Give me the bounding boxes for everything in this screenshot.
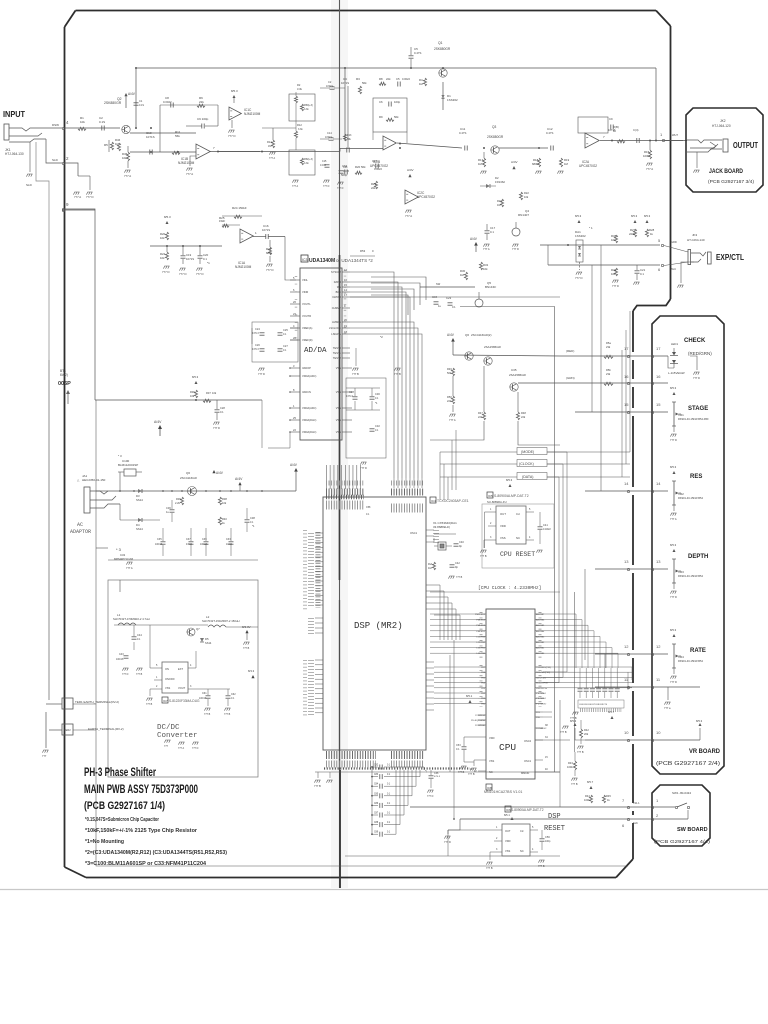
resistor R5 with bracket — [108, 140, 110, 152]
pin 9 stub — [62, 208, 64, 210]
DSP left pin column — [316, 532, 321, 608]
supply arrows reg — [212, 470, 215, 473]
svg-text:R12: R12 — [297, 123, 302, 127]
svg-text:100p: 100p — [394, 100, 401, 104]
svg-text:VADOP: VADOP — [302, 366, 311, 370]
svg-text:R50(+3): R50(+3) — [304, 104, 313, 107]
AD/DA IC body — [300, 268, 342, 440]
svg-text:* 1: * 1 — [589, 226, 593, 230]
svg-text:CHSMT: CHSMT — [332, 306, 342, 310]
svg-text:DSW: DSW — [52, 123, 59, 127]
svg-text:Cd: Cd — [520, 829, 524, 833]
feedback rail left drop — [135, 68, 137, 128]
svg-text:HTJ-064-130: HTJ-064-130 — [5, 152, 24, 156]
svg-text:XMOD/P3x: XMOD/P3x — [536, 688, 548, 690]
svg-text:777 D: 777 D — [360, 466, 367, 470]
cap C56 — [540, 838, 545, 840]
CPU left incoming wires P8 bus — [434, 666, 478, 668]
reset grounds — [484, 540, 488, 548]
svg-text:777 A: 777 A — [124, 174, 131, 178]
capacitor C2 — [101, 126, 103, 131]
outside-border wire down from jack — [36, 142, 49, 700]
svg-text:10: 10 — [624, 730, 629, 735]
svg-text:OUT: OUT — [500, 512, 506, 516]
svg-text:R52(+3): R52(+3) — [304, 158, 313, 161]
resistor R46b — [614, 268, 617, 276]
IC3 AD/DA header — [301, 255, 308, 262]
page bottom edge line — [0, 889, 768, 891]
resistor R39 — [180, 497, 183, 505]
power section enclosure box — [108, 580, 258, 777]
svg-text:VOUT: VOUT — [178, 686, 186, 690]
svg-text:C58: C58 — [366, 506, 371, 509]
svg-text:0.47S: 0.47S — [414, 51, 421, 55]
svg-text:777 D: 777 D — [512, 247, 519, 251]
svg-text:RN1407: RN1407 — [518, 213, 529, 217]
svg-text:V11.1: V11.1 — [633, 801, 640, 805]
CPU left pins upper — [478, 613, 486, 615]
CPU right P21 P20 — [535, 711, 543, 713]
resistor R42 — [579, 729, 582, 738]
divider wires — [262, 127, 296, 129]
border gaps at connector pins — [632, 352, 635, 360]
svg-text:C28: C28 — [220, 406, 225, 410]
DSP bottom gnd left — [329, 772, 331, 778]
svg-text:C40: C40 — [459, 540, 464, 544]
svg-text:23k: 23k — [606, 345, 611, 349]
wire pin2 row — [460, 818, 688, 820]
svg-text:777 B: 777 B — [560, 731, 567, 734]
DSP top pin cluster left — [326, 495, 364, 500]
svg-text:POWRG2: POWRG2 — [475, 715, 486, 717]
caps row gnd — [578, 697, 624, 699]
capacitor C40 — [454, 543, 459, 545]
terminal right wires — [73, 703, 96, 705]
svg-text:2SC4116GR(2): 2SC4116GR(2) — [471, 333, 491, 337]
resistor R48 — [516, 412, 519, 420]
svg-text:NJM2100M: NJM2100M — [235, 265, 252, 269]
svg-text:100k: 100k — [584, 798, 590, 802]
AD/DA VSS pins right — [342, 367, 352, 369]
svg-text:CHECK: CHECK — [684, 338, 706, 344]
svg-text:777: 777 — [164, 745, 169, 748]
resistor R49 — [451, 368, 454, 376]
svg-text:R5a: R5a — [606, 341, 611, 345]
svg-text:SLD: SLD — [52, 158, 59, 162]
svg-text:0.015: 0.015 — [320, 164, 327, 167]
svg-text:10k: 10k — [611, 272, 616, 276]
svg-text:MN101HCA27BS V1.01: MN101HCA27BS V1.01 — [484, 790, 522, 794]
rail drop to pin7 row — [559, 772, 561, 807]
DSP left pins CA bus — [315, 532, 323, 534]
svg-text:CPU: CPU — [499, 742, 516, 753]
DSP bottom pin cluster1 ticks — [326, 751, 376, 759]
L2 coil symbol — [208, 625, 226, 627]
svg-text:C35: C35 — [157, 538, 162, 541]
svg-text:*2: *2 — [380, 335, 383, 339]
divider network boxes left of fold — [289, 94, 315, 121]
svg-text:777 D: 777 D — [266, 268, 273, 272]
svg-text:777 D: 777 D — [162, 270, 169, 274]
IC4 label — [430, 497, 436, 503]
svg-text:L-115VEGW: L-115VEGW — [668, 371, 685, 375]
svg-text:R44: R44 — [585, 794, 590, 798]
svg-text:(RED/GRN): (RED/GRN) — [688, 351, 712, 356]
resistor R8 — [379, 82, 386, 85]
svg-text:R53: R53 — [360, 249, 366, 253]
svg-text:C32: C32 — [375, 424, 380, 428]
svg-text:VSS: VSS — [165, 686, 170, 690]
svg-text:1071S: 1071S — [326, 85, 333, 88]
main supply wire — [120, 490, 296, 492]
svg-text:1M: 1M — [268, 145, 271, 148]
resistor R26 — [268, 247, 271, 255]
svg-text:777 B: 777 B — [458, 771, 465, 774]
svg-text:RK901-40-15FW-B54: RK901-40-15FW-B54 — [678, 574, 703, 578]
resistor R15 to gnd — [648, 150, 651, 159]
wire Q3 to C12 — [499, 147, 548, 149]
svg-text:777 D: 777 D — [670, 595, 677, 599]
svg-text:EXP/CTL: EXP/CTL — [716, 253, 744, 262]
VR1 gnd — [673, 426, 675, 432]
svg-text:SW1 JM-0434: SW1 JM-0434 — [672, 791, 691, 795]
resistor R28 — [645, 229, 648, 237]
svg-text:HEC2350-01-150: HEC2350-01-150 — [82, 478, 106, 482]
transistor Q2 — [122, 125, 130, 133]
svg-text:10k: 10k — [524, 195, 529, 199]
R20 pwr arrow — [166, 221, 169, 224]
svg-text:DSP: DSP — [548, 813, 561, 821]
CPU pin numbers left column — [480, 612, 483, 658]
svg-text:47/6.3: 47/6.3 — [346, 395, 353, 398]
svg-text:SLD: SLD — [26, 183, 33, 187]
svg-text:BCK: BCK — [336, 290, 342, 294]
svg-text:777 D: 777 D — [693, 376, 700, 380]
svg-text:UDA1340M: UDA1340M — [309, 258, 335, 264]
svg-text:LCDPB1: LCDPB1 — [476, 648, 485, 650]
svg-text:P'2/TMOO: P'2/TMOO — [536, 703, 547, 705]
svg-text:IC7: IC7 — [163, 699, 168, 703]
IC7 pins — [154, 667, 162, 669]
svg-text:C2: C2 — [328, 80, 332, 84]
VR3 pot — [673, 559, 675, 583]
wire pin10 — [585, 739, 700, 741]
svg-text:1M: 1M — [115, 142, 120, 146]
dsp reset out drop — [448, 830, 460, 856]
op-amp IC2A — [585, 133, 599, 148]
svg-text:100/16: 100/16 — [199, 697, 207, 700]
svg-text:TEST2: TEST2 — [333, 356, 342, 360]
svg-text:C14: C14 — [327, 131, 332, 135]
caps row C64-C70 — [578, 688, 583, 690]
DSP IC body — [323, 497, 426, 750]
svg-text:22k: 22k — [199, 100, 204, 104]
capacitor C34 — [434, 301, 439, 303]
svg-text:P'3/TMAO: P'3/TMAO — [536, 697, 546, 700]
svg-text:777 D: 777 D — [196, 272, 203, 276]
CPU RESET IC body — [496, 506, 526, 544]
fold shadow band — [331, 0, 348, 888]
power arrow dcdc — [245, 630, 248, 633]
svg-text:14: 14 — [656, 481, 661, 486]
svg-text:IC5: IC5 — [488, 494, 493, 498]
CPU right pins upper AN — [535, 613, 543, 615]
ground IC1B — [190, 156, 196, 166]
svg-text:8/5.7: 8/5.7 — [608, 710, 615, 714]
DSP RESET IC body — [502, 824, 530, 856]
svg-text:10k: 10k — [122, 156, 127, 160]
svg-text:C61: C61 — [202, 692, 207, 695]
IC2C pwr arrow — [408, 174, 411, 177]
svg-text:22k: 22k — [447, 399, 452, 403]
resistor R38 — [614, 235, 617, 243]
svg-text:777 D: 777 D — [427, 795, 434, 798]
svg-text:VR2: VR2 — [678, 492, 684, 496]
DSP top pin ticks cluster1 — [326, 489, 364, 496]
resistor R25 — [222, 224, 229, 227]
DSP top pin labels cluster1 — [326, 481, 364, 486]
wire exp row1 — [584, 244, 660, 246]
IC5 header — [487, 492, 493, 498]
svg-text:VSS: VSS — [489, 759, 494, 763]
svg-text:R23: R23 — [497, 199, 502, 203]
svg-text:8/5.3: 8/5.3 — [670, 386, 677, 390]
svg-text:1071S: 1071S — [146, 135, 155, 139]
svg-text:VR4: VR4 — [678, 655, 684, 659]
resistor R1 — [78, 127, 86, 130]
pin12 vertical feed — [604, 654, 606, 668]
resistor R20 — [165, 232, 168, 240]
svg-text:C15: C15 — [322, 160, 327, 163]
wire power to DCDC box — [119, 580, 121, 592]
svg-text:OUTPUT: OUTPUT — [733, 141, 758, 150]
resistor R30 — [464, 272, 467, 280]
svg-text:RATE: RATE — [690, 648, 706, 654]
svg-text:R49: R49 — [447, 367, 452, 371]
svg-text:8/5.3: 8/5.3 — [670, 543, 677, 547]
op-amp IC1A — [240, 229, 253, 243]
transistor Q7 — [484, 357, 492, 365]
wire buses from AD/DA right pins down — [350, 272, 394, 478]
capacitor C19 — [181, 255, 186, 257]
svg-text:Rv1: Rv1 — [428, 562, 433, 566]
AD/DA pin number marks — [295, 276, 298, 344]
svg-text:SLF7032T-151MR07-2 150uH: SLF7032T-151MR07-2 150uH — [202, 619, 239, 623]
svg-text:47/6.3: 47/6.3 — [252, 348, 259, 351]
svg-text:MAIN PWB ASSY 75D373P000: MAIN PWB ASSY 75D373P000 — [84, 784, 198, 796]
capacitor C12 — [550, 146, 552, 151]
wire jack sleeve to ground — [46, 139, 62, 163]
capacitor C5b — [397, 82, 399, 87]
svg-text:C9 100p: C9 100p — [197, 117, 209, 121]
svg-text:TXD/SBO(P45): TXD/SBO(P45) — [536, 667, 551, 669]
svg-text:R22: R22 — [524, 191, 529, 195]
svg-text:OSC1: OSC1 — [410, 531, 418, 535]
svg-text:C85: C85 — [374, 793, 379, 795]
svg-text:8/5.1: 8/5.1 — [466, 694, 473, 698]
svg-text:777 D: 777 D — [444, 840, 451, 844]
svg-text:PMLED4: PMLED4 — [476, 620, 486, 622]
DSP bottom wire row — [326, 771, 560, 773]
svg-text:GRD: GRD — [671, 240, 677, 244]
svg-text:C64C65C66C67C68C69C70: C64C65C66C67C68C69C70 — [579, 704, 608, 706]
svg-text:A/4V: A/4V — [447, 333, 455, 337]
svg-text:500p: 500p — [341, 173, 348, 177]
wire pin7 row — [410, 806, 675, 808]
svg-text:EXT: EXT — [178, 667, 183, 671]
svg-text:C37: C37 — [186, 538, 191, 541]
svg-text:777 B: 777 B — [571, 783, 578, 786]
svg-text:777 B: 777 B — [394, 372, 401, 376]
svg-text:JK2: JK2 — [720, 119, 726, 123]
svg-text:2SK880GR: 2SK880GR — [487, 135, 504, 139]
svg-text:14: 14 — [624, 481, 629, 486]
svg-text:LSDATA: LSDATA — [331, 332, 341, 336]
diode D1 — [442, 82, 444, 110]
svg-text:NC: NC — [520, 849, 524, 853]
svg-text:(PCB G2927167 2/4): (PCB G2927167 2/4) — [656, 761, 720, 767]
svg-text:1M: 1M — [478, 162, 483, 166]
svg-text:DATAI: DATAI — [334, 280, 342, 284]
svg-text:A/4V: A/4V — [128, 92, 136, 96]
svg-text:SLK: SLK — [633, 821, 638, 825]
svg-text:JK3: JK3 — [692, 233, 698, 237]
crystal X1 symbol — [438, 542, 446, 550]
op-amp IC2C — [405, 190, 418, 204]
svg-text:C38: C38 — [250, 516, 255, 520]
svg-text:HTJ-064-140: HTJ-064-140 — [687, 238, 705, 242]
svg-text:777 B: 777 B — [577, 751, 584, 754]
transistor Q3 — [491, 146, 499, 154]
svg-text:0.1: 0.1 — [640, 272, 644, 276]
svg-text:2SC4116GR: 2SC4116GR — [180, 476, 198, 480]
svg-text:15: 15 — [656, 402, 661, 407]
svg-text:47/16: 47/16 — [186, 543, 193, 546]
svg-text:R37: R37 — [206, 391, 211, 395]
svg-text:DSP (MR2): DSP (MR2) — [354, 621, 403, 631]
svg-text:VDDA(ADC): VDDA(ADC) — [302, 406, 317, 410]
resistor R14 — [271, 140, 274, 148]
svg-text:A/4V: A/4V — [470, 237, 478, 241]
svg-text:S-81220F33MA-DUG: S-81220F33MA-DUG — [169, 699, 200, 703]
svg-text:680k: 680k — [266, 251, 273, 255]
terminal wires — [49, 703, 62, 705]
svg-text:15: 15 — [624, 402, 629, 407]
svg-text:0.0022: 0.0022 — [374, 167, 382, 171]
svg-text:777 A: 777 A — [178, 747, 185, 750]
svg-text:8/5.1: 8/5.1 — [504, 813, 510, 817]
svg-text:777 A: 777 A — [292, 185, 299, 188]
svg-text:JACK BOARD: JACK BOARD — [709, 169, 744, 175]
svg-text:LSCLOCK: LSCLOCK — [329, 326, 341, 330]
terminal TER1 — [62, 698, 73, 709]
svg-text:*3=C100:BLM11A601SP or C33:NFM: *3=C100:BLM11A601SP or C33:NFM41P11C204 — [85, 861, 207, 867]
svg-text:10k: 10k — [80, 120, 85, 124]
svg-text:R36: R36 — [190, 390, 195, 394]
svg-text:8/5.3: 8/5.3 — [506, 478, 513, 482]
svg-text:777 D: 777 D — [258, 372, 265, 376]
dsp reset pwr — [511, 817, 514, 820]
svg-text:8/5.3: 8/5.3 — [670, 628, 677, 632]
svg-text:or UDA1344TS *2: or UDA1344TS *2 — [336, 258, 373, 263]
capacitor C2b — [330, 86, 335, 88]
svg-text:POWRGK: POWRGK — [475, 725, 486, 727]
P21 P20 wires — [543, 711, 552, 713]
battery arrow symbol — [66, 390, 70, 394]
transistor Q1 — [439, 69, 447, 77]
svg-text:C86: C86 — [374, 803, 379, 805]
svg-text:WS: WS — [337, 285, 341, 289]
svg-text:SLF7032T-470M4R2-2 4.7uH: SLF7032T-470M4R2-2 4.7uH — [113, 617, 150, 621]
wire exp row2 — [548, 264, 660, 266]
svg-text:0.1S: 0.1S — [139, 104, 144, 107]
svg-text:16: 16 — [656, 374, 661, 379]
svg-text:777 A: 777 A — [405, 214, 412, 218]
resistor R18 — [537, 158, 540, 167]
svg-text:C42: C42 — [455, 561, 460, 565]
svg-text:MPM4P71C2M: MPM4P71C2M — [114, 557, 134, 561]
feedback box around C6 R9 (IC2B) — [373, 98, 407, 132]
svg-text:1M: 1M — [564, 162, 569, 166]
diode D4 — [138, 518, 142, 522]
svg-text:S-80900ALMP-DAT-T2: S-80900ALMP-DAT-T2 — [511, 808, 544, 812]
cap C41 — [538, 526, 543, 528]
svg-text:VOUTR: VOUTR — [302, 314, 311, 318]
svg-text:RK901-40-15FW-B54: RK901-40-15FW-B54 — [678, 659, 703, 663]
transistor Q6 reg — [188, 487, 197, 496]
svg-text:OSC1: OSC1 — [524, 759, 532, 763]
JACK BOARD box — [686, 108, 763, 192]
wire pin12 RATE — [595, 653, 668, 655]
resistor R11 — [172, 151, 180, 154]
svg-text:VINL: VINL — [302, 278, 308, 282]
svg-text:SS14: SS14 — [136, 527, 143, 531]
svg-text:ON/OFF: ON/OFF — [165, 677, 175, 681]
caps cluster upper C24 C25 C26 C27 — [252, 322, 298, 362]
RP1 pullup arrow — [590, 786, 593, 789]
svg-text:10/16: 10/16 — [226, 543, 233, 546]
AD/DA right pin labels — [342, 271, 350, 273]
svg-text:C63: C63 — [342, 164, 348, 168]
svg-text:777 A: 777 A — [74, 195, 81, 199]
svg-text:ANLPA6: ANLPA6 — [536, 619, 545, 622]
svg-text:C39: C39 — [202, 538, 207, 541]
capacitor C23 — [448, 302, 453, 304]
IC1C ground — [231, 120, 233, 128]
capacitor C44 — [132, 636, 137, 638]
svg-text:RK901-40-15FW-B54: RK901-40-15FW-B54 — [678, 496, 703, 500]
AD/DA lower left pins — [290, 367, 300, 369]
capacitor C11 — [464, 146, 466, 151]
svg-text:C36: C36 — [434, 772, 439, 775]
svg-text:R24 150kF: R24 150kF — [232, 206, 247, 210]
svg-text:VR3: VR3 — [678, 570, 684, 574]
svg-text:777 B: 777 B — [146, 703, 153, 706]
svg-text:100p: 100p — [545, 840, 551, 843]
svg-text:17: 17 — [656, 346, 661, 351]
pin15 vertical feed — [591, 265, 593, 412]
pin 2 stub to grounds — [65, 163, 78, 176]
exp wires into jack — [664, 246, 688, 253]
CPU right pins serial — [535, 666, 543, 668]
svg-text:0.1: 0.1 — [490, 230, 494, 234]
svg-text:SS14: SS14 — [205, 641, 212, 645]
cap C53 — [462, 746, 467, 748]
svg-text:777 D: 777 D — [192, 747, 199, 750]
svg-text:Q6: Q6 — [186, 471, 190, 475]
CPU OSC2 — [535, 739, 543, 741]
svg-text:777 B: 777 B — [570, 717, 577, 720]
